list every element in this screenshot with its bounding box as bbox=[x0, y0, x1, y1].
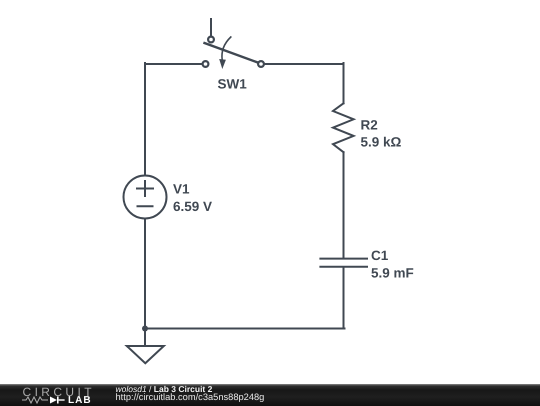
footer bar bbox=[0, 384, 540, 406]
voltage source V1 bbox=[124, 176, 167, 219]
label V1 value bbox=[173, 182, 212, 215]
svg-text:V1: V1 bbox=[173, 182, 190, 197]
capacitor C1 bbox=[320, 259, 367, 267]
logo diode bbox=[50, 397, 65, 404]
logo resistor zigzag bbox=[22, 397, 48, 403]
wire bottom horizontal bbox=[145, 328, 345, 330]
svg-text:C1: C1 bbox=[371, 248, 389, 263]
svg-text:5.9 kΩ: 5.9 kΩ bbox=[361, 135, 402, 150]
wire right vertical (above R2) bbox=[343, 63, 345, 103]
ground bbox=[127, 329, 164, 364]
resistor R2 bbox=[333, 103, 354, 152]
wire left vertical (top) bbox=[144, 63, 146, 176]
wire top-left horizontal bbox=[145, 63, 202, 65]
svg-text:R2: R2 bbox=[361, 118, 378, 133]
svg-text:5.9 mF: 5.9 mF bbox=[371, 266, 414, 281]
label R2 value bbox=[361, 118, 402, 150]
footer meta text bbox=[115, 383, 117, 385]
wire left vertical (below V1) bbox=[144, 219, 146, 329]
label SW1 bbox=[218, 77, 248, 92]
wire right vertical (below C1) bbox=[343, 268, 345, 329]
switch SW1 bbox=[203, 19, 264, 69]
label C1 value bbox=[371, 248, 414, 281]
logo CircuitLab bbox=[23, 386, 95, 398]
svg-text:SW1: SW1 bbox=[218, 77, 248, 92]
wire right vertical (R2 to C1) bbox=[343, 152, 345, 257]
svg-text:6.59 V: 6.59 V bbox=[173, 199, 212, 214]
junction dot node bbox=[142, 326, 148, 332]
wire top-right horizontal bbox=[265, 63, 344, 65]
